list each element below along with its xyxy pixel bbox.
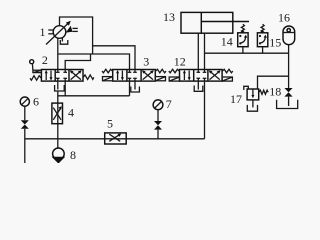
wire cylinder left port: [197, 33, 199, 69]
wire bottom bus: [25, 138, 205, 140]
relief 17 drain stub: [252, 100, 254, 108]
pump 1 drain stub: [61, 38, 63, 42]
check valve 8: [52, 148, 66, 164]
relief valve 17: [244, 86, 268, 100]
wire horizontal A-line: [58, 95, 130, 97]
valve V3 (directional valve): [102, 69, 166, 81]
cylinder 13: [181, 12, 249, 33]
valve 2 drain tank: [55, 85, 65, 91]
shutoff valve 6b: [21, 120, 29, 129]
svg-text:3: 3: [143, 55, 149, 69]
wire pump outlet: [60, 17, 93, 54]
svg-text:12: 12: [174, 54, 186, 68]
pump 1 drain tank: [60, 40, 68, 44]
wire gauge6 stem: [24, 106, 26, 120]
pump 1 (variable displacement pump): [46, 21, 78, 45]
svg-text:6: 6: [33, 95, 39, 109]
accumulator 16: [283, 26, 295, 45]
svg-text:15: 15: [269, 35, 281, 49]
wire valve2 A down: [64, 81, 66, 96]
wire gauge7 down: [157, 130, 159, 139]
svg-text:17: 17: [230, 92, 242, 106]
wire cylinder right port: [204, 33, 206, 69]
shutoff valve 7b: [154, 121, 162, 130]
wire H2 bus: [58, 54, 130, 70]
wire H1 branch: [93, 46, 135, 70]
valve 12 drain stub: [197, 81, 199, 89]
wire relay15 stub: [262, 47, 264, 54]
wire pump to valve2 P: [57, 38, 59, 70]
svg-text:18: 18: [269, 84, 281, 98]
shutoff valve 18: [284, 88, 292, 97]
wire accumulator bus: [205, 52, 289, 54]
wire relay14 stub: [242, 47, 244, 54]
wire valve3 A down: [129, 81, 131, 96]
wire through throttle 4: [57, 91, 59, 148]
svg-text:14: 14: [221, 34, 233, 48]
throttle valve 4: [52, 103, 63, 124]
svg-text:8: 8: [70, 148, 76, 162]
svg-text:2: 2: [42, 53, 48, 67]
valve 3 drain stub: [134, 81, 136, 89]
pressure gauge 6: [20, 97, 29, 106]
valve 2 pilot circle: [30, 60, 34, 70]
valve 3 drain tank: [131, 87, 140, 93]
pressure gauge 7: [153, 100, 163, 110]
pressure relay 15: [257, 24, 267, 46]
svg-text:5: 5: [107, 117, 113, 131]
wire valve18 down: [288, 97, 290, 106]
throttle valve 5: [105, 133, 127, 144]
pressure relay 14: [238, 24, 248, 46]
svg-text:13: 13: [163, 10, 175, 24]
valve V12 (directional valve): [169, 69, 233, 81]
svg-text:16: 16: [278, 11, 290, 25]
tank right: [277, 100, 298, 109]
wire gauge7 stem: [157, 110, 159, 121]
wire valve2 B port: [65, 54, 90, 70]
wire gauge6 down: [24, 129, 26, 163]
relief 17 drain tank: [247, 105, 257, 111]
valve 2 drain stub: [57, 81, 59, 89]
wire relief17 inlet: [258, 76, 289, 89]
svg-text:7: 7: [166, 97, 172, 111]
wire accumulator down: [288, 45, 290, 88]
valve V2 (directional valve): [30, 70, 94, 82]
valve 12 drain tank: [194, 86, 203, 92]
svg-text:4: 4: [68, 106, 74, 120]
svg-text:1: 1: [40, 25, 46, 39]
wire valve12 to bottom bus: [204, 81, 206, 139]
